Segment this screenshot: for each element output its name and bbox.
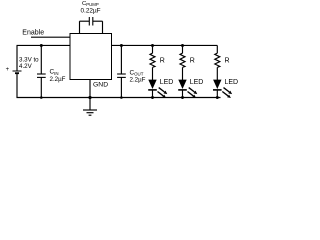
svg-text:4.2V: 4.2V	[19, 63, 33, 70]
LED D3	[213, 80, 232, 98]
junction dot: C_OUT top on output rail	[120, 44, 123, 47]
svg-text:LED: LED	[225, 79, 239, 86]
value label 2.2uF for C_IN	[50, 76, 66, 83]
reference label C_IN	[50, 69, 59, 76]
svg-text:2.2µF: 2.2µF	[50, 76, 66, 83]
wire: IC U1 GND pin down to ground rail	[89, 80, 91, 98]
junction dot: GND pin on ground rail	[88, 96, 91, 99]
op-amp / IC U1 charge-pump LED driver box	[70, 34, 112, 80]
wire: branch 3 from output rail down to resistor	[216, 45, 218, 53]
label Enable (enable input net)	[22, 30, 44, 37]
junction dot: branch 2 on ground rail	[181, 96, 184, 99]
svg-text:R: R	[225, 57, 230, 64]
value label 3.3V to 4.2V for battery BT1	[19, 57, 39, 71]
wire: battery positive up to input rail	[16, 45, 18, 71]
battery plus sign	[6, 67, 10, 73]
wire: resistor R3 to LED3 anode	[216, 67, 218, 80]
wire: resistor R2 to LED2 anode	[182, 67, 184, 80]
ground symbol	[83, 98, 97, 116]
label LED for D1	[160, 79, 174, 86]
wire: resistor R1 to LED1 anode	[152, 67, 154, 80]
svg-text:+: +	[6, 67, 10, 73]
wire: output rail from IC U1 VOUT to LED branches	[112, 44, 218, 46]
battery BT1 3.3V to 4.2V	[13, 71, 22, 73]
value label 0.22uF for C_PUMP	[81, 8, 101, 15]
wire: ground rail (bottom)	[17, 97, 221, 99]
svg-text:Enable: Enable	[22, 30, 44, 37]
label LED for D3	[225, 79, 239, 86]
wire: LED2 cathode to ground rail	[182, 90, 184, 98]
svg-text:R: R	[160, 57, 165, 64]
resistor R3	[215, 53, 220, 67]
reference label C_OUT	[130, 69, 144, 76]
reference label C_PUMP	[82, 1, 99, 7]
junction dot: branch 3 on ground rail	[216, 96, 219, 99]
junction dot: branch 1 on output rail	[151, 44, 154, 47]
svg-text:LED: LED	[190, 79, 204, 86]
wire: input rail from battery to IC U1 VIN	[17, 44, 71, 46]
junction dot: C_OUT bottom on ground rail	[120, 96, 123, 99]
junction dot: C_IN top on input rail	[40, 44, 43, 47]
svg-text:0.22µF: 0.22µF	[81, 8, 101, 15]
capacitor C_IN 2.2uF	[37, 45, 46, 97]
svg-text:CPUMP: CPUMP	[82, 1, 99, 7]
value label R for resistor R2	[190, 57, 195, 64]
pin label GND of IC U1	[93, 81, 108, 88]
svg-text:LED: LED	[160, 79, 174, 86]
resistor R2	[180, 53, 185, 67]
svg-text:2.2µF: 2.2µF	[130, 77, 146, 84]
wire: branch 1 from output rail down to resistor	[152, 45, 154, 53]
wire: battery negative down to ground rail	[16, 73, 18, 98]
capacitor C_OUT 2.2uF	[117, 45, 126, 97]
label LED for D2	[190, 79, 204, 86]
junction dot: branch 1 on ground rail	[151, 96, 154, 99]
value label R for resistor R3	[225, 57, 230, 64]
resistor R1	[150, 53, 155, 67]
wire: Enable input to IC U1 left side	[31, 36, 70, 38]
LED D1	[148, 80, 167, 98]
value label 2.2uF for C_OUT	[130, 77, 146, 84]
wire: branch 2 from output rail down to resistor	[182, 45, 184, 53]
junction dot: C_IN bottom on ground rail	[40, 96, 43, 99]
LED D2	[178, 80, 197, 98]
corner: branch 3 top (no dot)	[0, 0, 1, 1]
value label R for resistor R1	[160, 57, 165, 64]
svg-text:R: R	[190, 57, 195, 64]
wire: LED3 cathode to ground rail	[216, 90, 218, 98]
wire: LED1 cathode to ground rail	[152, 90, 154, 98]
capacitor C_PUMP 0.22uF (flying capacitor)	[80, 17, 103, 34]
junction dot: branch 2 on output rail	[181, 44, 184, 47]
svg-text:GND: GND	[93, 81, 108, 88]
